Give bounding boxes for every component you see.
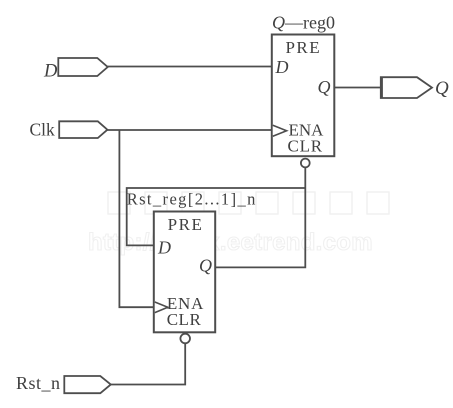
svg-text:CLR: CLR — [167, 310, 202, 329]
svg-text:Q: Q — [435, 78, 449, 99]
svg-text:Q—reg0: Q—reg0 — [272, 12, 335, 32]
svg-text:D: D — [43, 62, 58, 82]
svg-text:http://xilinx.eetrend.com: http://xilinx.eetrend.com — [88, 229, 373, 256]
svg-text:CLR: CLR — [287, 136, 322, 155]
svg-text:D: D — [157, 238, 171, 258]
svg-text:Rst_n: Rst_n — [16, 373, 61, 393]
svg-text:Q: Q — [199, 256, 212, 276]
svg-text:Clk: Clk — [30, 120, 56, 140]
svg-text:D: D — [275, 57, 289, 77]
svg-text:PRE: PRE — [168, 215, 204, 234]
svg-text:Rst_reg[2...1]_n: Rst_reg[2...1]_n — [127, 190, 257, 209]
svg-text:PRE: PRE — [285, 38, 321, 57]
svg-text:Q: Q — [318, 77, 331, 97]
